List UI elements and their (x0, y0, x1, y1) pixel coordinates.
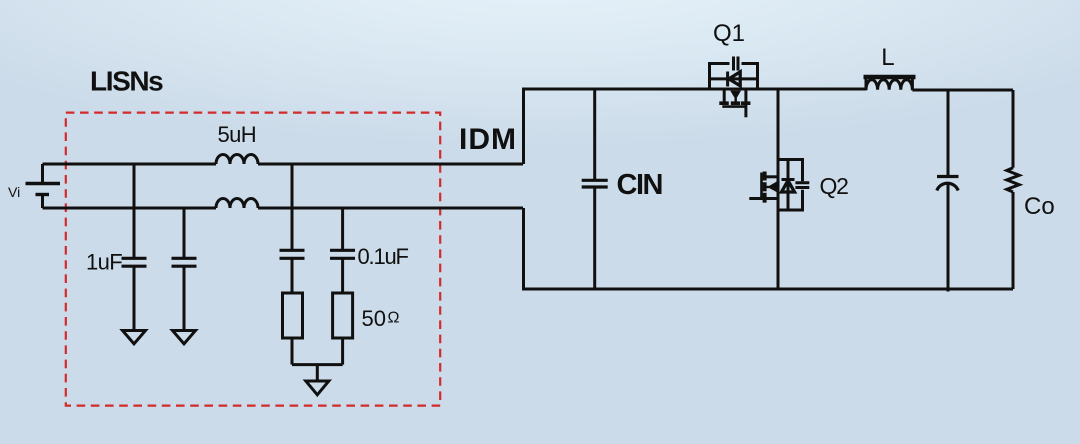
transistor Q2 gate lead (749, 197, 778, 200)
wire top rail right end down to Co (1012, 90, 1015, 168)
resistor R2 50ohm (333, 293, 353, 338)
wire converter top rail (524, 89, 867, 164)
transistor Q1 middle bar (710, 77, 758, 80)
resistor Co zigzag (1007, 168, 1019, 192)
inductor L1 5uH (top line) (216, 155, 258, 164)
transistor Q1 body outline (710, 64, 758, 90)
wire battery positive to top rail (41, 164, 44, 184)
transistor Q1 gate line (722, 105, 746, 108)
inductor L left step (865, 77, 868, 90)
resistor R1 50ohm (283, 293, 303, 338)
transistor Q2 drain stub (766, 175, 778, 178)
capacitor C4 0.1uF (330, 250, 355, 258)
inductor L2 5uH (bottom line) (216, 199, 258, 209)
transistor Q1 gate lead (744, 90, 747, 117)
transistor Q1 gate bars (734, 57, 739, 71)
inductor L right step (911, 77, 914, 90)
svg-text:CIN: CIN (617, 169, 662, 201)
battery V1 positive plate (26, 182, 61, 185)
transistor Q1 channel segments (719, 101, 750, 105)
wire stub to ground (316, 365, 319, 381)
capacitor Cout curved plate (937, 183, 958, 190)
wire C1 to ground (133, 266, 136, 330)
wire LISN top rail left (43, 163, 217, 166)
wire C3 to R1 (291, 258, 294, 293)
wire R1 to ground bus (291, 338, 294, 365)
inductor L top bar (864, 75, 916, 80)
wire CIN to bottom rail (593, 187, 596, 289)
wire Co to bottom rail (1012, 192, 1015, 289)
ground (R1 R2) (306, 381, 329, 395)
transistor Q1 arrow (730, 91, 741, 100)
wire Cout to bottom rail (947, 184, 950, 292)
capacitor C1 1uF (122, 258, 147, 266)
transistor Q2 body diode cathode (782, 178, 795, 181)
ground (C1) (123, 331, 146, 344)
LISN dashed boundary box (66, 113, 440, 406)
wire top rail to C3 (291, 164, 294, 250)
svg-text:IDM: IDM (459, 123, 517, 156)
wire LISN bottom rail left (43, 207, 217, 210)
svg-text:1uF: 1uF (86, 250, 122, 275)
transistor Q2 body outline (778, 160, 803, 211)
svg-text:Vi: Vi (8, 184, 20, 200)
transistor Q2 gate bars (795, 183, 809, 188)
wire bottom rail to C2 (183, 208, 186, 258)
capacitor CIN (582, 180, 608, 187)
wire converter bottom rail (524, 208, 1014, 289)
svg-text:L: L (881, 44, 894, 71)
wire top rail to C1 (133, 164, 136, 258)
svg-text:Q2: Q2 (820, 173, 849, 199)
battery V1 negative plate (36, 193, 50, 196)
capacitor C3 0.1uF (280, 250, 305, 258)
wire switch node branch (Q2 drain-source) (777, 89, 780, 289)
wire ground bus (292, 363, 343, 366)
transistor Q2 arrow (767, 181, 777, 192)
transistor Q2 gate line (760, 173, 763, 199)
wire bottom rail to C4 (341, 208, 344, 250)
wire R2 to ground bus (341, 338, 344, 365)
capacitor C2 1uF (172, 258, 197, 266)
wire LISN top rail right (258, 163, 523, 166)
transistor Q2 middle bar (787, 160, 790, 211)
wire top rail to Cout (947, 90, 950, 177)
svg-text:0.1uF: 0.1uF (358, 244, 409, 269)
wire top rail to CIN (593, 89, 596, 180)
transistor Q1 source stub (723, 89, 726, 103)
transistor Q2 body diode (782, 181, 795, 193)
svg-text:LISNs: LISNs (90, 66, 163, 97)
transistor Q1 body diode (729, 72, 740, 86)
svg-text:Q1: Q1 (713, 20, 745, 47)
wire LISN bottom rail right (258, 207, 523, 210)
ground (C2) (173, 331, 196, 344)
transistor Q1 arrow stem (735, 98, 737, 103)
wire converter top rail right of L (912, 89, 1013, 92)
transistor Q2 arrow stem (765, 186, 769, 188)
wire battery negative to bottom rail (41, 195, 44, 209)
transistor Q2 channel segments (763, 172, 767, 203)
wire C2 to ground (183, 266, 186, 330)
svg-text:5uH: 5uH (218, 122, 257, 147)
wire C4 to R2 (341, 258, 344, 293)
transistor Q1 body diode cathode (726, 72, 729, 87)
inductor L windings (866, 80, 912, 90)
capacitor Cout top plate (937, 175, 959, 178)
svg-text:Co: Co (1024, 193, 1055, 220)
